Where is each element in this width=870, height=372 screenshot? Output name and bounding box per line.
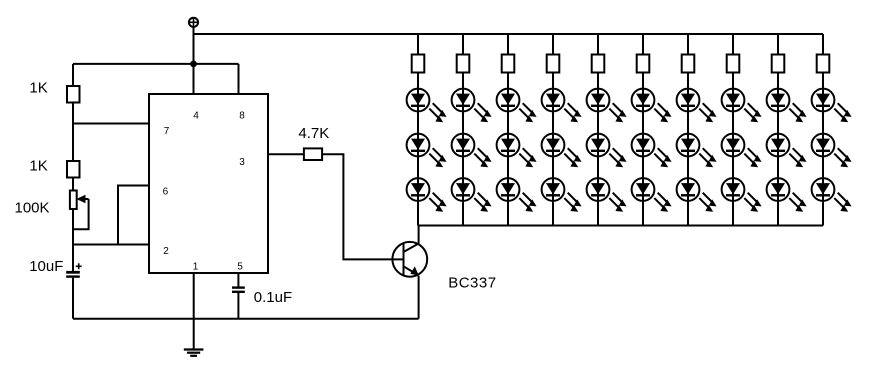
LED D31 [497,89,537,123]
LED D81 [722,89,762,123]
LED D11 [407,89,447,123]
wire to IC pin 7 [73,123,149,125]
resistor column 4 [547,55,560,73]
LED D51 [587,89,627,123]
svg-text:4: 4 [193,111,199,122]
wire supply branch horizontal [73,63,239,65]
wire to IC pin 8 [238,64,240,94]
node junction at supply [190,61,197,68]
wire LED column 2 [462,34,464,226]
LED D71 [677,89,717,123]
LED D21 [452,89,492,123]
wire to IC pin 6 [118,186,149,245]
wire power to IC pin 4 [193,27,195,94]
wire supply to R1 [72,64,74,86]
wire bottom ground bus [73,318,419,320]
resistor column 9 [772,55,785,73]
wire IC pin 3 to R3 [268,153,304,155]
svg-text:1: 1 [193,262,199,273]
resistor column 1 [412,55,425,73]
svg-text:4.7K: 4.7K [298,125,329,142]
LED D23 [452,178,492,212]
LED D41 [542,89,582,123]
LED D12 [407,134,447,168]
svg-text:1K: 1K [29,80,47,97]
LED D72 [677,134,717,168]
wire net to capacitor C1 [72,245,74,272]
wire LED column 5 [597,34,599,226]
wire LED column 9 [777,34,779,226]
wire C2 to ground bus [237,293,239,319]
capacitor C1 10uF polarized [66,263,82,276]
svg-text:8: 8 [239,111,245,122]
wire LED array bottom bus [419,225,823,227]
wire IC pin 5 to C2 [237,273,239,287]
resistor R 1K (second) [67,161,80,178]
resistor column 10 [817,55,830,73]
resistor R 1K (top) [67,86,80,103]
LED D73 [677,178,717,212]
potentiometer 100K body [70,191,77,210]
LED D52 [587,134,627,168]
wire C1 to ground bus [72,278,74,319]
LED D103 [812,178,852,212]
wire R3 to transistor base [322,154,403,259]
LED D43 [542,178,582,212]
LED D61 [632,89,672,123]
wire R2 to pot [72,178,74,191]
svg-text:BC337: BC337 [448,275,496,292]
resistor column 6 [637,55,650,73]
power supply + terminal [189,18,198,27]
svg-text:0.1uF: 0.1uF [254,289,292,306]
svg-text:6: 6 [163,186,169,197]
svg-text:1K: 1K [29,158,47,175]
wire LED column 6 [642,34,644,226]
transistor Q1 BC337 [392,242,427,277]
ground symbol [184,350,204,356]
svg-text:2: 2 [163,246,169,257]
resistor column 7 [682,55,695,73]
LED D62 [632,134,672,168]
svg-text:10uF: 10uF [29,258,63,275]
wire R1 to R2 [72,103,74,162]
svg-text:3: 3 [239,157,245,168]
LED D82 [722,134,762,168]
capacitor C2 0.1uF [232,288,245,292]
LED D93 [767,178,807,212]
resistor R3 4.7K [304,148,322,160]
resistor column 5 [592,55,605,73]
LED D101 [812,89,852,123]
wire LED column 10 [822,34,824,226]
wire collector to LED bus [418,226,420,244]
wire LED column 4 [552,34,554,226]
LED D92 [767,134,807,168]
svg-text:100K: 100K [15,200,50,217]
LED D83 [722,178,762,212]
resistor column 3 [502,55,515,73]
wire to IC pin 2 [73,244,149,246]
wire pot wiper to bottom terminal [73,199,89,229]
op-amp/timer IC 555 body [149,94,268,273]
wire LED column 3 [507,34,509,226]
wire LED column 8 [732,34,734,226]
LED D53 [587,178,627,212]
svg-text:7: 7 [164,126,170,137]
wire IC pin 1 to ground [193,273,195,349]
wire emitter to ground bus [418,276,420,319]
LED D91 [767,89,807,123]
resistor column 8 [727,55,740,73]
svg-text:5: 5 [237,262,243,273]
LED D13 [407,178,447,212]
resistor column 2 [457,55,470,73]
potentiometer wiper arrow [76,195,88,203]
LED D63 [632,178,672,212]
wire LED column 1 [417,34,419,226]
wire pot to pins 6,2 net [72,209,74,245]
LED D32 [497,134,537,168]
LED D22 [452,134,492,168]
wire top supply bus [194,33,824,35]
wire LED column 7 [687,34,689,226]
LED D42 [542,134,582,168]
LED D102 [812,134,852,168]
LED D33 [497,178,537,212]
